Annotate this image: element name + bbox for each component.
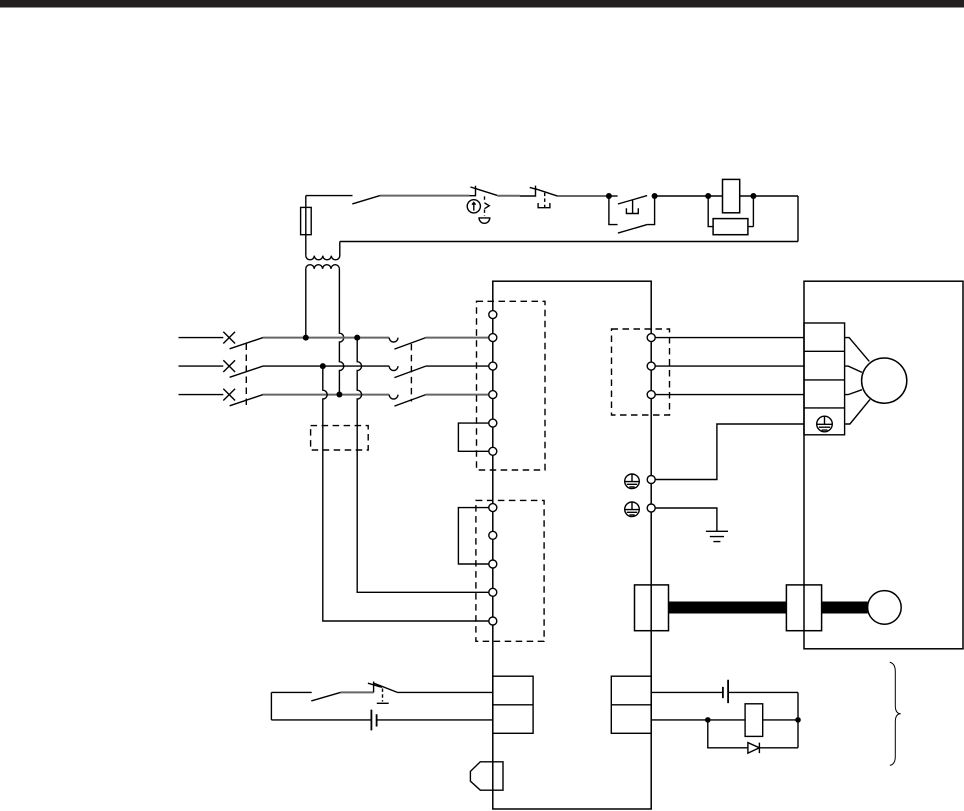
wire B from L1 to terminal [357, 338, 489, 593]
pendant actuator bar [377, 702, 389, 704]
ground symbol [706, 531, 728, 541]
wire L3 [263, 394, 389, 396]
connector block left [493, 676, 533, 733]
pendant actuator dashed link [382, 689, 384, 702]
pendant NC contact [368, 682, 398, 693]
fuse mark X L2 [223, 360, 235, 372]
start button S4 NO contact [609, 196, 647, 214]
suppressor module [713, 219, 748, 235]
fuse wire [305, 196, 307, 256]
node dot2 [652, 193, 658, 199]
brace [890, 662, 901, 765]
phase L1 input wire [179, 337, 224, 339]
dashed terminal group box upper-left [477, 301, 546, 470]
S2 chevron [485, 203, 490, 209]
node dot4 [750, 193, 756, 199]
node dot3 [705, 193, 711, 199]
diode D1 [748, 743, 760, 754]
wire [497, 195, 520, 197]
wire [558, 195, 607, 197]
terminal circles left [489, 311, 497, 625]
wire [380, 195, 469, 197]
contactor dashed gang link [410, 344, 412, 402]
wire L1 [263, 337, 389, 339]
wire L2 to terminal [426, 365, 489, 367]
wire control top left [306, 195, 353, 197]
S3 pushbutton symbol [538, 203, 550, 208]
node dot1 [606, 193, 612, 199]
brake battery [723, 680, 728, 703]
contactor contact L1 [389, 338, 426, 350]
ground wire [655, 508, 717, 531]
stop button S3 NC contact [520, 186, 558, 197]
S2 trip indicator circle with arrow [467, 200, 480, 213]
node dot secondary-L3 [336, 392, 342, 398]
disconnect blade L2 [230, 366, 263, 377]
motor M [862, 358, 907, 403]
contactor contact L2 [389, 366, 426, 378]
pendant NO blade [311, 692, 340, 701]
wire secondary left drop [305, 269, 307, 338]
brake supply wire [651, 691, 723, 693]
control return wire [340, 241, 798, 243]
plug connector [470, 762, 503, 790]
coil K1 [723, 179, 740, 212]
S2 actuator dashed link lower [484, 210, 486, 216]
dashed terminal group box lower-left [476, 500, 544, 641]
node dot6 [795, 717, 801, 723]
node dot wireB-L1 [354, 335, 360, 341]
diode branch wire [708, 720, 798, 748]
wire [655, 195, 723, 197]
brake right edge wire [797, 692, 799, 747]
wire [740, 195, 798, 197]
brake block left [635, 585, 669, 631]
S3 actuator dashed link [544, 193, 546, 204]
emergency stop S2 NC contact [469, 186, 497, 196]
S4 pushbutton symbol [626, 208, 638, 213]
phase L2 input wire [179, 365, 224, 367]
wire [728, 691, 798, 693]
motor leads [845, 338, 870, 424]
jumper link lower terminals [458, 508, 489, 564]
wire A from L2 to terminal [323, 366, 489, 621]
switch S1 blade [352, 196, 380, 204]
brake resistor wire [651, 719, 798, 721]
earth symbol lower [625, 502, 640, 517]
S2 mushroom head [479, 218, 490, 223]
node dot wireA-L2 [320, 363, 326, 369]
latch aux contact K1 [609, 196, 655, 233]
pendant loop left [270, 692, 272, 720]
brake shaft [669, 602, 787, 614]
transformer T1 primary [306, 242, 340, 260]
connector block right [611, 676, 651, 733]
earth symbol motor block [817, 416, 833, 432]
wire L3 to terminal [426, 394, 489, 396]
disconnect blade L3 [230, 395, 263, 406]
contactor contact L3 [389, 395, 426, 407]
jumper link terminals 5-6 [458, 423, 489, 451]
pendant battery [371, 710, 376, 731]
handwheel [868, 591, 902, 625]
S2 actuator dashed link [484, 196, 486, 202]
controller box [493, 281, 651, 809]
brake block right [786, 585, 821, 631]
fuse mark X L3 [223, 389, 235, 401]
fuse mark X L1 [223, 332, 235, 344]
fuse F1 [301, 207, 312, 234]
node dot5 [705, 717, 711, 723]
control right edge wire [797, 196, 799, 242]
phase L3 input wire [179, 394, 224, 396]
disconnect blade L1 [230, 338, 263, 349]
wire secondary right drop with hops [339, 269, 343, 395]
earth symbol upper [625, 474, 640, 489]
disconnect dashed gang link [245, 344, 247, 406]
pendant top wire [271, 691, 311, 693]
header bar [0, 0, 964, 8]
node dot secondary-L1 [303, 335, 309, 341]
transformer T1 secondary [306, 265, 340, 269]
wire L2 [263, 365, 389, 367]
wire battery to connector [377, 719, 493, 721]
brake resistor [745, 704, 763, 737]
motor wires U V W [655, 338, 804, 395]
earth wire to motor [655, 424, 804, 480]
wire [341, 691, 374, 693]
shaft to handwheel [822, 602, 868, 614]
dashed terminal group box right [612, 329, 670, 415]
motor terminal block [804, 323, 845, 435]
pendant bottom wire [271, 719, 371, 721]
wire L1 to terminal [426, 337, 489, 339]
dashed option box around wires A B [311, 426, 369, 450]
motor enclosure box [804, 281, 963, 649]
terminal circles right [647, 334, 655, 512]
suppressor branch wires [708, 196, 753, 227]
wire to connector [398, 691, 493, 693]
